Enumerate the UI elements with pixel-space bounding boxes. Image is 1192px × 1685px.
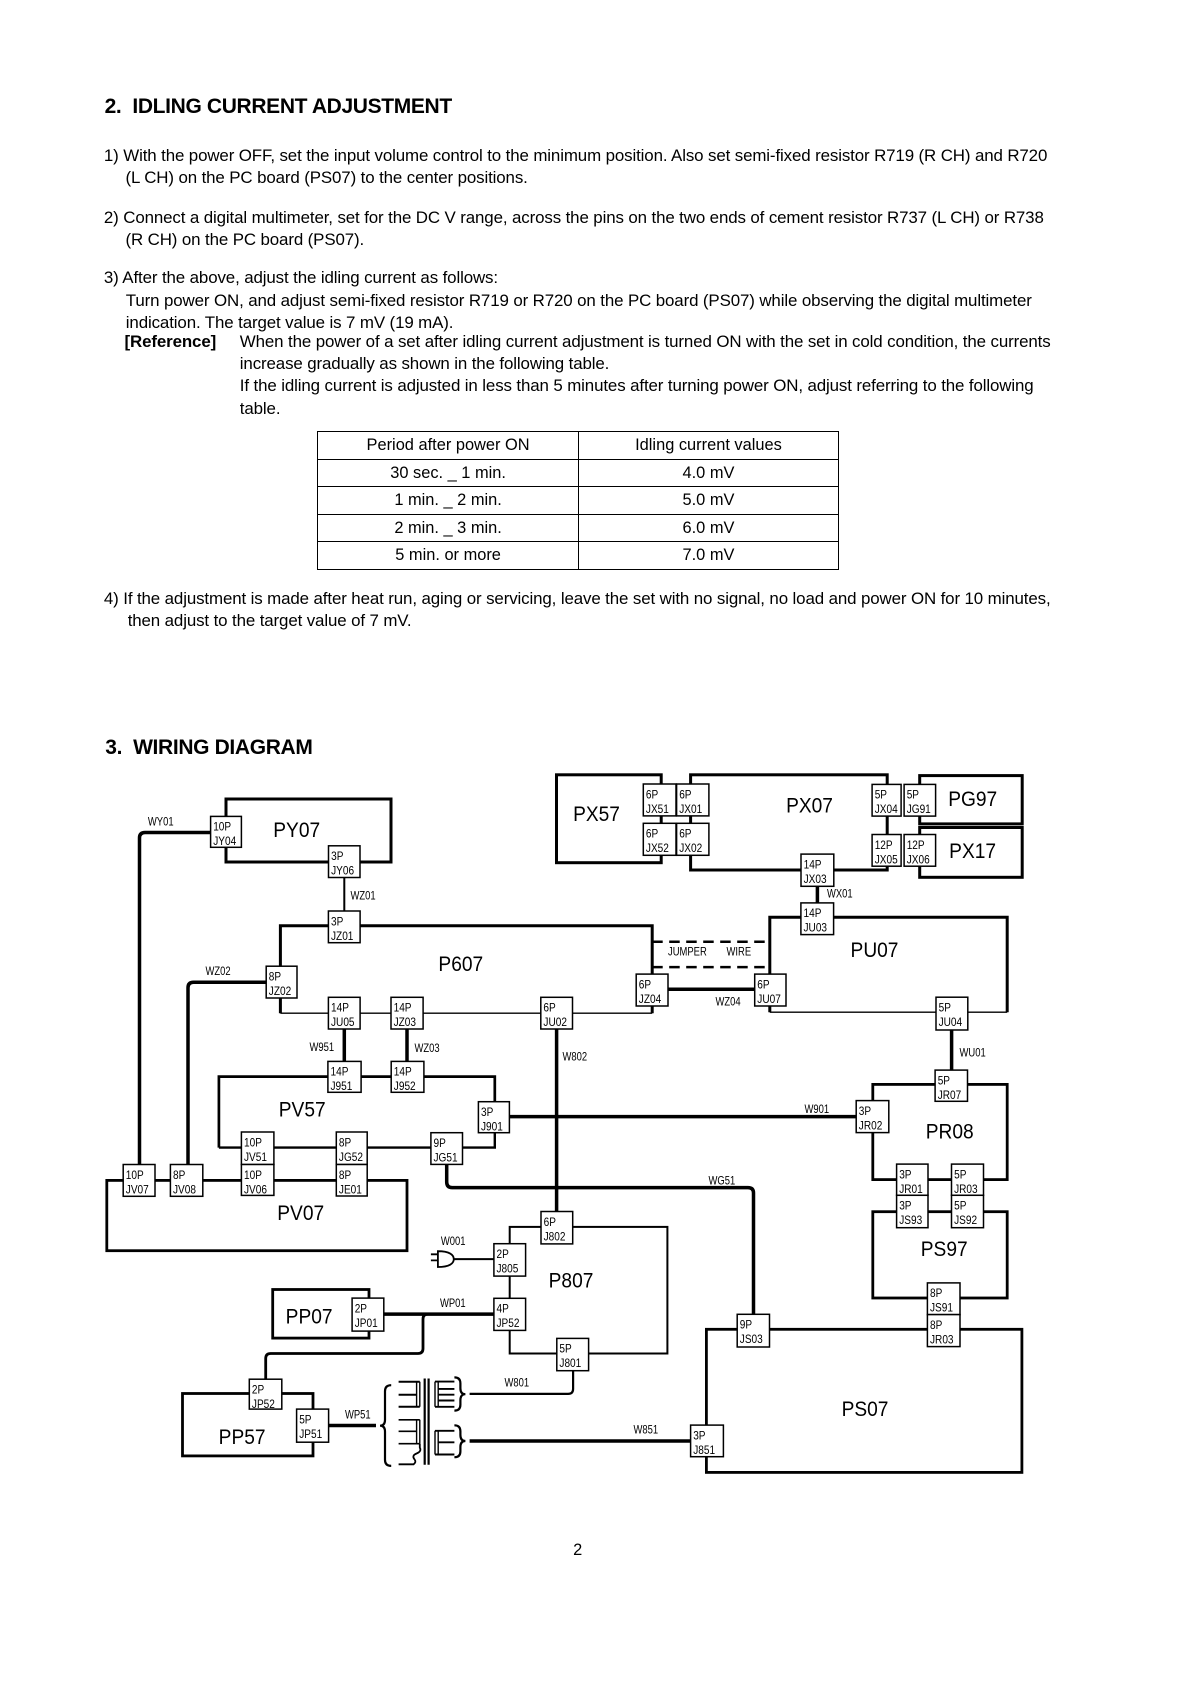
svg-text:JUMPER: JUMPER — [668, 946, 707, 959]
svg-text:JR03: JR03 — [954, 1183, 978, 1196]
connector JR07 (5P) — [935, 1070, 967, 1102]
wire label W802 — [563, 1051, 588, 1064]
wire WP51 — [329, 1424, 376, 1428]
wire label WU01 — [960, 1047, 986, 1060]
svg-text:JV51: JV51 — [244, 1151, 267, 1164]
svg-text:WP01: WP01 — [440, 1297, 466, 1310]
connector JS03 (9P) — [737, 1314, 769, 1347]
board label PG97 — [948, 788, 997, 811]
svg-text:JV07: JV07 — [126, 1184, 149, 1197]
connector JS91 (8P) — [927, 1283, 960, 1315]
board label PP57 — [219, 1426, 266, 1449]
svg-text:3P: 3P — [481, 1106, 493, 1119]
PV57 upper outline — [219, 1077, 495, 1148]
wire label WP51 — [345, 1409, 371, 1422]
svg-text:JU07: JU07 — [757, 993, 781, 1006]
svg-text:WZ02: WZ02 — [206, 965, 231, 978]
transformer T801 — [380, 1377, 465, 1466]
svg-text:PX17: PX17 — [949, 840, 996, 863]
svg-text:JU05: JU05 — [331, 1016, 355, 1029]
connector JX51 (6P) — [643, 784, 676, 816]
board label PV57 — [279, 1099, 326, 1122]
board label PX17 — [949, 840, 996, 863]
wire WX01 — [816, 886, 820, 903]
wire label WZ01 — [351, 890, 376, 903]
svg-text:14P: 14P — [804, 907, 822, 920]
svg-text:8P: 8P — [339, 1169, 351, 1182]
svg-text:6P: 6P — [679, 789, 691, 802]
heading 3 — [105, 736, 312, 760]
svg-text:J951: J951 — [331, 1080, 353, 1093]
svg-text:5P: 5P — [954, 1169, 966, 1182]
wire W851 — [470, 1439, 691, 1443]
board PR08 — [873, 1084, 1007, 1179]
svg-text:JU02: JU02 — [543, 1016, 567, 1029]
connector JZ02 (8P) — [266, 966, 297, 998]
connector JU07 (6P) — [755, 974, 786, 1006]
svg-text:JX06: JX06 — [907, 854, 930, 867]
svg-text:3P: 3P — [331, 916, 343, 929]
board P807 — [510, 1227, 668, 1354]
svg-text:PV57: PV57 — [279, 1099, 326, 1122]
board PS97 — [873, 1212, 1007, 1298]
svg-text:W001: W001 — [441, 1235, 466, 1248]
connector JS93 (3P) — [897, 1195, 928, 1227]
svg-text:14P: 14P — [804, 859, 822, 872]
svg-text:JR07: JR07 — [938, 1089, 962, 1102]
svg-text:5P: 5P — [939, 1002, 951, 1015]
board label PR08 — [926, 1121, 974, 1144]
svg-text:W951: W951 — [310, 1041, 335, 1054]
wire WZ04 — [668, 987, 755, 991]
svg-text:WX01: WX01 — [827, 888, 853, 901]
svg-text:5P: 5P — [938, 1075, 950, 1088]
board PY07 — [226, 799, 391, 862]
connector J801 (5P) — [557, 1338, 589, 1370]
svg-text:J802: J802 — [544, 1231, 566, 1244]
connector JX04 (5P) — [872, 784, 901, 816]
svg-text:JR01: JR01 — [899, 1183, 923, 1196]
board label PX07 — [786, 795, 833, 818]
connector JP52a (2P) — [249, 1379, 281, 1411]
connector J851 (3P) — [691, 1425, 724, 1457]
svg-text:W851: W851 — [634, 1424, 659, 1437]
wire WP01 — [384, 1312, 494, 1316]
svg-text:8P: 8P — [930, 1287, 942, 1300]
svg-text:10P: 10P — [213, 821, 231, 834]
wire label WZ03 — [415, 1042, 440, 1055]
connector JZ04 (6P) — [636, 974, 668, 1006]
svg-text:6P: 6P — [639, 979, 651, 992]
svg-text:2P: 2P — [497, 1248, 509, 1261]
wire label W901 — [805, 1103, 830, 1116]
svg-text:3P: 3P — [899, 1200, 911, 1213]
wire W802 — [555, 1029, 559, 1212]
wire label WZ04 — [716, 996, 741, 1009]
svg-text:9P: 9P — [434, 1137, 446, 1150]
svg-text:JG52: JG52 — [339, 1151, 363, 1164]
svg-text:JZ04: JZ04 — [639, 993, 661, 1006]
svg-text:P607: P607 — [438, 953, 483, 976]
svg-text:3P: 3P — [693, 1430, 705, 1443]
connector JX03 (14P) — [801, 854, 834, 886]
svg-text:3P: 3P — [859, 1105, 871, 1118]
board PS07 — [706, 1329, 1022, 1472]
board label PY07 — [273, 819, 320, 842]
connector JE01 (8P) — [336, 1165, 367, 1197]
connector JP01 (2P) — [352, 1298, 384, 1331]
svg-text:JR03: JR03 — [930, 1334, 954, 1347]
svg-text:JX01: JX01 — [679, 803, 702, 816]
svg-text:JX05: JX05 — [875, 854, 898, 867]
wire label W001 — [441, 1235, 466, 1248]
svg-text:PP57: PP57 — [219, 1426, 266, 1449]
connector JU04 (5P) — [936, 997, 968, 1030]
connector JZ03 (14P) — [391, 997, 423, 1029]
connector JP52b (4P) — [494, 1298, 526, 1330]
svg-text:9P: 9P — [740, 1319, 752, 1332]
connector JZ01 (3P) — [328, 911, 360, 943]
svg-text:JS91: JS91 — [930, 1302, 953, 1315]
svg-text:J901: J901 — [481, 1121, 503, 1134]
svg-text:WZ03: WZ03 — [415, 1042, 440, 1055]
svg-text:JS93: JS93 — [899, 1214, 922, 1227]
svg-text:6P: 6P — [544, 1216, 556, 1229]
board PG97 — [920, 776, 1023, 824]
connector JU03 (14P) — [801, 903, 834, 935]
board label PP07 — [286, 1306, 333, 1329]
board label P607 — [438, 953, 483, 976]
idling current table — [317, 431, 839, 570]
connector JV07 (10P) — [123, 1165, 155, 1197]
connector J952 (14P) — [391, 1061, 424, 1093]
wire WU01 — [950, 1030, 954, 1070]
svg-text:5P: 5P — [875, 789, 887, 802]
svg-text:JE01: JE01 — [339, 1184, 362, 1197]
svg-text:JZ02: JZ02 — [269, 985, 291, 998]
svg-text:JS03: JS03 — [740, 1333, 763, 1346]
svg-text:W901: W901 — [805, 1103, 830, 1116]
svg-text:PR08: PR08 — [926, 1121, 974, 1144]
svg-text:PG97: PG97 — [948, 788, 997, 811]
svg-text:JP51: JP51 — [299, 1428, 322, 1441]
svg-text:WG51: WG51 — [709, 1175, 736, 1188]
svg-text:5P: 5P — [954, 1200, 966, 1213]
svg-text:2P: 2P — [355, 1303, 367, 1316]
connector JY04 (10P) — [211, 816, 242, 848]
board label PX57 — [573, 803, 620, 826]
connector JX05 (12P) — [872, 835, 901, 867]
heading 2 — [105, 95, 452, 119]
svg-text:PP07: PP07 — [286, 1306, 333, 1329]
svg-text:WY01: WY01 — [148, 816, 174, 829]
connector JX01 (6P) — [677, 784, 709, 816]
board label P807 — [549, 1270, 594, 1293]
board label PV07 — [277, 1202, 324, 1225]
svg-text:6P: 6P — [679, 828, 691, 841]
svg-text:14P: 14P — [394, 1002, 412, 1015]
svg-text:PS07: PS07 — [842, 1398, 889, 1421]
svg-text:J952: J952 — [394, 1080, 416, 1093]
svg-text:J851: J851 — [693, 1444, 715, 1457]
connector JR03a (5P) — [952, 1164, 984, 1196]
svg-text:JV06: JV06 — [244, 1184, 267, 1197]
svg-text:10P: 10P — [244, 1137, 262, 1150]
svg-text:PX07: PX07 — [786, 795, 833, 818]
svg-text:12P: 12P — [875, 839, 893, 852]
svg-text:JX52: JX52 — [646, 842, 669, 855]
svg-text:3P: 3P — [899, 1169, 911, 1182]
connector JX52 (6P) — [643, 823, 676, 855]
P607 outline (left, top, right) — [280, 926, 652, 1013]
connector JX02 (6P) — [677, 823, 709, 855]
connector JY06 (3P) — [329, 846, 361, 878]
wire W001 cord — [453, 1258, 494, 1260]
connector JX06 (12P) — [904, 835, 936, 867]
svg-text:6P: 6P — [543, 1002, 555, 1015]
connector J802 (6P) — [541, 1212, 573, 1244]
svg-text:8P: 8P — [930, 1319, 942, 1332]
connector JS92 (5P) — [952, 1195, 984, 1227]
svg-text:8P: 8P — [173, 1169, 185, 1182]
connector JU05 (14P) — [328, 997, 360, 1029]
PU07 outline (left, top, right) — [770, 917, 1007, 1012]
svg-text:3P: 3P — [331, 850, 343, 863]
svg-text:10P: 10P — [244, 1169, 262, 1182]
svg-text:WU01: WU01 — [960, 1047, 986, 1060]
P607 bottom edge — [280, 1012, 652, 1014]
svg-text:JX03: JX03 — [804, 873, 827, 886]
wire WG51 — [447, 1164, 754, 1314]
svg-text:2P: 2P — [252, 1384, 264, 1397]
svg-text:JR02: JR02 — [859, 1120, 883, 1133]
wire label WP01 — [440, 1297, 466, 1310]
svg-text:6P: 6P — [646, 789, 658, 802]
board PV07 — [107, 1180, 407, 1250]
connector J951 (14P) — [328, 1061, 361, 1093]
wire label W851 — [634, 1424, 659, 1437]
connector JR02 (3P) — [856, 1101, 889, 1133]
svg-text:WZ04: WZ04 — [716, 996, 741, 1009]
svg-text:5P: 5P — [299, 1414, 311, 1427]
board PP57 — [183, 1394, 314, 1456]
connector JU02 (6P) — [541, 997, 573, 1029]
svg-text:JP52: JP52 — [252, 1398, 275, 1411]
connector J805 (2P) — [494, 1244, 526, 1276]
svg-text:14P: 14P — [394, 1066, 412, 1079]
wire W901 — [509, 1115, 856, 1119]
svg-text:JG51: JG51 — [434, 1152, 458, 1165]
board label PS97 — [921, 1238, 968, 1261]
svg-text:W802: W802 — [563, 1051, 588, 1064]
svg-text:JU03: JU03 — [804, 922, 828, 935]
svg-text:JZ03: JZ03 — [394, 1016, 416, 1029]
AC plug W001 — [431, 1251, 454, 1267]
svg-text:WIRE: WIRE — [727, 946, 752, 959]
connector JV06 (10P) — [241, 1165, 274, 1197]
svg-text:JP52: JP52 — [497, 1317, 520, 1330]
svg-text:JX02: JX02 — [679, 842, 702, 855]
connector JV08 (8P) — [170, 1165, 202, 1197]
board PX57 — [557, 775, 662, 863]
PV57 lower outline — [219, 1133, 495, 1148]
board PX07 — [691, 775, 888, 870]
wire WZ03 — [405, 1029, 409, 1061]
svg-text:4P: 4P — [497, 1303, 509, 1316]
svg-text:JU04: JU04 — [939, 1016, 963, 1029]
wire WZ01 — [343, 878, 345, 912]
svg-text:JZ01: JZ01 — [331, 930, 353, 943]
jumper wire dashed lines — [652, 942, 770, 967]
svg-text:8P: 8P — [339, 1137, 351, 1150]
svg-text:JY06: JY06 — [331, 865, 354, 878]
svg-text:PY07: PY07 — [273, 819, 320, 842]
svg-text:JV08: JV08 — [173, 1184, 196, 1197]
svg-text:JX04: JX04 — [875, 803, 898, 816]
wire W951 — [343, 1029, 347, 1061]
svg-text:J805: J805 — [497, 1263, 519, 1276]
connector JG52 (8P) — [336, 1132, 367, 1165]
svg-text:8P: 8P — [269, 971, 281, 984]
svg-text:6P: 6P — [757, 979, 769, 992]
wire label WX01 — [827, 888, 853, 901]
connector JV51 (10P) — [241, 1132, 274, 1165]
board label PU07 — [851, 939, 899, 962]
svg-text:JX51: JX51 — [646, 803, 669, 816]
wire label WY01 — [148, 816, 174, 829]
svg-text:14P: 14P — [331, 1002, 349, 1015]
board PP07 — [273, 1290, 369, 1339]
PU07 bottom edge — [770, 1011, 1007, 1013]
wire WY01 — [140, 833, 211, 1165]
wire WP51 branch to JP52 — [266, 1314, 428, 1379]
svg-text:JY04: JY04 — [213, 835, 236, 848]
connector JR01 (3P) — [897, 1164, 928, 1196]
connector JR03b (8P) — [927, 1315, 960, 1347]
svg-text:P807: P807 — [549, 1270, 594, 1293]
svg-text:10P: 10P — [126, 1169, 144, 1182]
svg-text:5P: 5P — [559, 1343, 571, 1356]
svg-text:WZ01: WZ01 — [351, 890, 376, 903]
svg-text:14P: 14P — [331, 1066, 349, 1079]
svg-text:JG91: JG91 — [907, 803, 931, 816]
svg-text:WP51: WP51 — [345, 1409, 371, 1422]
wire label W801 — [505, 1377, 530, 1390]
page number — [548, 1541, 608, 1560]
svg-text:JS92: JS92 — [954, 1214, 977, 1227]
svg-text:PU07: PU07 — [851, 939, 899, 962]
svg-text:6P: 6P — [646, 828, 658, 841]
wire label W951 — [310, 1041, 335, 1054]
svg-text:12P: 12P — [907, 839, 925, 852]
wire label WG51 — [709, 1175, 736, 1188]
svg-text:W801: W801 — [505, 1377, 530, 1390]
wire WZ02 — [188, 982, 266, 1164]
svg-text:5P: 5P — [907, 789, 919, 802]
connector JG91 (5P) — [904, 784, 936, 816]
svg-text:PS97: PS97 — [921, 1238, 968, 1261]
connector JG51 (9P) — [431, 1133, 463, 1165]
board PX17 — [920, 828, 1023, 878]
svg-text:JP01: JP01 — [355, 1317, 378, 1330]
connector JP51 (5P) — [297, 1409, 329, 1442]
wire label WZ02 — [206, 965, 231, 978]
board label PS07 — [842, 1398, 889, 1421]
connector J901 (3P) — [478, 1102, 509, 1134]
svg-text:PX57: PX57 — [573, 803, 620, 826]
svg-text:PV07: PV07 — [277, 1202, 324, 1225]
wire W801 — [470, 1371, 573, 1394]
svg-text:J801: J801 — [559, 1357, 581, 1370]
